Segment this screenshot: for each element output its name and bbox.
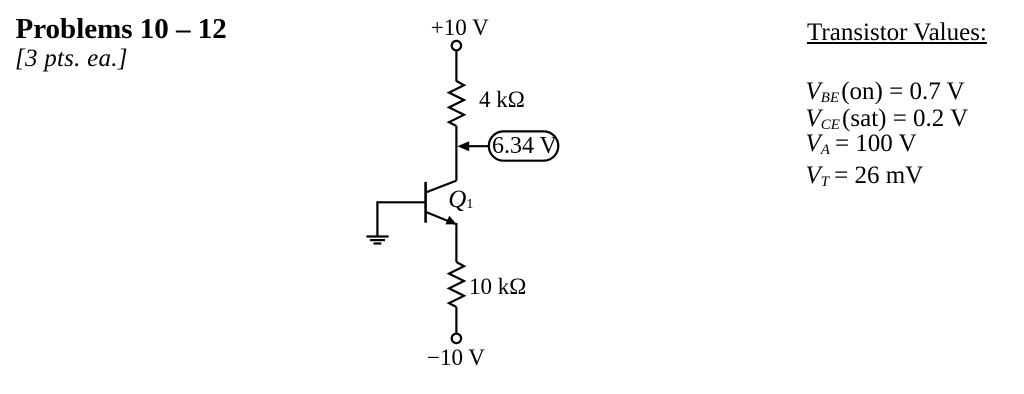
line V_CE [806,106,969,133]
label 4 kOhm [479,88,525,111]
collector diagonal [426,181,457,193]
terminal circle -10V [452,334,461,343]
label -10 V [427,346,485,369]
title Problems 10-12 [16,15,227,44]
wire emitter to R2 [455,223,457,262]
line V_T [806,163,924,190]
line V_A [806,131,917,158]
base wire [377,201,425,203]
label +10 V [431,16,489,39]
subtitle [3 pts. ea.] [15,46,128,71]
ground symbol [366,235,388,237]
resistor R1 zigzag [449,81,464,126]
label 6.34 V [492,134,557,158]
callout oval 6.34V [489,131,559,160]
terminal circle +10V [452,41,461,50]
emitter diagonal [426,212,455,224]
label 10 kOhm [469,275,526,298]
heading Transistor Values [807,20,987,45]
line V_BE [806,79,965,106]
emitter arrowhead [445,216,456,225]
callout arrow line [468,145,489,147]
wire R2 to bottom terminal [455,307,457,334]
callout arrowhead [457,141,469,151]
transistor Q1 bar [424,182,427,223]
wire top terminal to R1 [455,51,457,82]
resistor R2 zigzag [449,262,464,307]
label Q1 [448,187,473,212]
wire R1 to collector corner [455,126,457,181]
wire base down to ground [376,201,378,236]
